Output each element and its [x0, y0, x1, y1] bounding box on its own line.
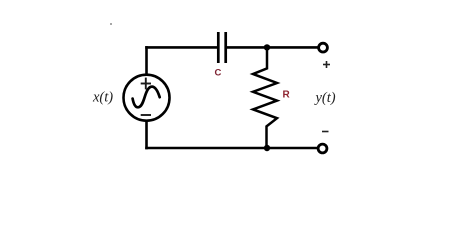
voltage source sine wave: [133, 87, 160, 108]
node junction dot top: [264, 44, 270, 50]
svg-text:x(t): x(t): [92, 90, 113, 106]
voltage source V1 circle: [124, 75, 170, 121]
node junction dot bottom: [264, 145, 270, 151]
output terminal top (open circle): [319, 43, 328, 52]
wire: top rail right (capacitor to output terminal): [227, 46, 318, 49]
stray speck: [110, 23, 112, 25]
voltage source polarity plus: [141, 78, 151, 90]
output terminal bottom (open circle): [318, 144, 327, 153]
output polarity plus: [323, 61, 330, 68]
svg-text:C: C: [215, 68, 222, 79]
wire: bottom rail: [145, 147, 317, 150]
output polarity minus: [322, 131, 329, 133]
wire: top-left vertical segment from top rail to source top: [145, 46, 148, 74]
wire: top rail left (source corner to capacitor): [145, 46, 217, 49]
voltage source polarity minus: [141, 114, 151, 116]
capacitor C1 right plate: [224, 32, 227, 63]
wire: left vertical segment from source bottom to bottom rail: [145, 121, 148, 149]
resistor R1 zigzag: [253, 47, 277, 148]
svg-text:R: R: [283, 90, 291, 101]
capacitor C1 left plate: [217, 32, 220, 63]
svg-text:y(t): y(t): [314, 90, 336, 106]
